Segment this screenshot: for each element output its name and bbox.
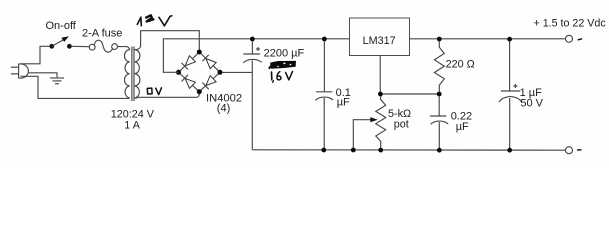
svg-text:On-off: On-off bbox=[46, 20, 77, 32]
+ rail right of LM317 bbox=[410, 38, 566, 40]
diode D2 bottom-left bbox=[185, 79, 195, 89]
svg-text:50 V: 50 V bbox=[520, 98, 543, 110]
output terminal top bbox=[566, 35, 573, 42]
svg-text:LM317: LM317 bbox=[363, 35, 396, 47]
wire fuse to primary top bbox=[118, 47, 130, 50]
node adj left bbox=[378, 92, 383, 97]
wiper arrow bbox=[353, 120, 371, 148]
handwritten 0 V bbox=[147, 88, 161, 95]
svg-text:1 A: 1 A bbox=[124, 119, 140, 131]
diode D4 bottom-right bbox=[206, 76, 216, 86]
potentiometer R2 5k bbox=[353, 96, 385, 148]
transformer T1 primary bbox=[124, 50, 129, 98]
handwritten 16 V bbox=[272, 71, 293, 82]
plus sign bbox=[256, 47, 260, 51]
node adj right bbox=[437, 92, 442, 97]
capacitor C1 2200uF bbox=[243, 41, 261, 150]
transformer core bbox=[131, 47, 133, 102]
svg-text:2200 µF: 2200 µF bbox=[264, 47, 305, 59]
handwritten 12 V bbox=[137, 15, 172, 25]
ground bbox=[50, 78, 64, 84]
switch S1 bbox=[49, 36, 71, 48]
wire bridge left vertex to + rail bbox=[163, 39, 349, 73]
LM317 adjust lead bbox=[379, 56, 381, 95]
ground rail bbox=[252, 149, 565, 151]
junction node C2 bbox=[322, 37, 327, 42]
node left bbox=[176, 70, 181, 75]
svg-text:+ 1.5 to 22 Vdc: + 1.5 to 22 Vdc bbox=[534, 17, 607, 29]
diode D3 top-right bbox=[206, 59, 216, 69]
junction node C4 bbox=[507, 37, 512, 42]
capacitor C3 0.22uF bbox=[430, 96, 448, 150]
fuse F1 bbox=[89, 40, 117, 52]
node top bbox=[197, 50, 202, 55]
wire secondary bottom to bridge bottom vertex bbox=[135, 92, 200, 98]
ac plug P1 bbox=[11, 64, 28, 79]
plus sign bbox=[513, 84, 517, 88]
capacitor C4 1uF 50V bbox=[499, 41, 522, 150]
bridge rectifier IN4002 x4 bbox=[176, 50, 223, 95]
resistor R1 220 ohm bbox=[434, 41, 444, 92]
node right bbox=[218, 70, 223, 75]
node pot bottom bbox=[378, 148, 383, 153]
node C3 bottom bbox=[437, 148, 442, 153]
wire plug top to switch bbox=[21, 46, 52, 64]
wire bridge right vertex to C1 lead bbox=[223, 71, 252, 73]
svg-text:220 Ω: 220 Ω bbox=[446, 58, 475, 70]
output terminal bottom bbox=[566, 147, 573, 154]
wire plug bottom to transformer primary bottom bbox=[21, 76, 130, 98]
node wiper bottom bbox=[351, 148, 356, 153]
handwritten check top bbox=[578, 38, 581, 41]
node bottom bbox=[197, 89, 202, 94]
node C4 bottom bbox=[507, 148, 512, 153]
wire secondary top to bridge top vertex bbox=[135, 31, 200, 52]
capacitor C2 0.1uF bbox=[316, 41, 334, 150]
wire plug tip to ground bbox=[29, 73, 57, 78]
junction node R1 bbox=[437, 37, 442, 42]
svg-text:µF: µF bbox=[337, 97, 350, 109]
diamond edges bbox=[179, 52, 221, 92]
LM317 U1 bbox=[350, 18, 410, 56]
scribble (crossed-out value) bbox=[269, 61, 296, 69]
adj row wire bbox=[380, 93, 439, 95]
svg-text:2-A fuse: 2-A fuse bbox=[82, 28, 122, 40]
transformer T1 secondary bbox=[135, 50, 140, 98]
handwritten dash bottom bbox=[578, 149, 581, 151]
wire switch to fuse bbox=[72, 45, 90, 47]
junction node C1 bbox=[250, 37, 255, 42]
node C2 bottom bbox=[321, 148, 326, 153]
svg-text:(4): (4) bbox=[217, 103, 230, 115]
diode D1 top-left bbox=[185, 56, 195, 66]
svg-text:pot: pot bbox=[394, 118, 409, 130]
svg-text:µF: µF bbox=[456, 121, 469, 133]
